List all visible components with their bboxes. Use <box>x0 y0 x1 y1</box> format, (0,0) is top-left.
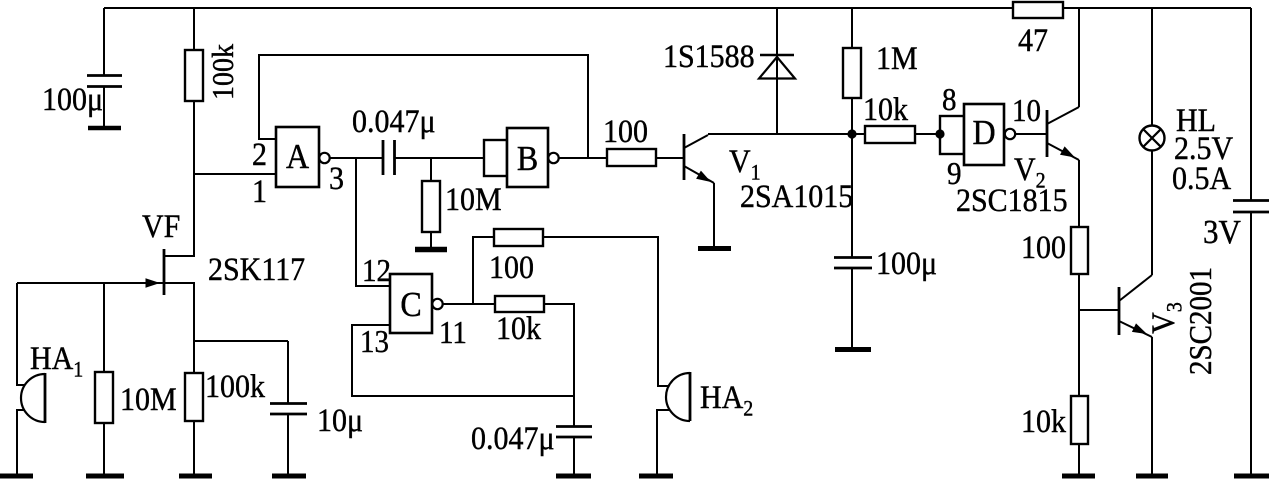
svg-text:3: 3 <box>329 160 344 196</box>
svg-text:D: D <box>972 114 995 153</box>
svg-text:100: 100 <box>1021 229 1066 265</box>
svg-text:100μ: 100μ <box>876 245 937 281</box>
svg-text:2: 2 <box>252 136 267 172</box>
svg-text:10k: 10k <box>863 91 908 127</box>
svg-text:C: C <box>400 286 421 325</box>
svg-text:100: 100 <box>603 113 648 149</box>
svg-text:2SA1015: 2SA1015 <box>740 178 853 214</box>
svg-text:10: 10 <box>1012 93 1041 128</box>
svg-text:10μ: 10μ <box>317 402 363 438</box>
svg-text:HA1: HA1 <box>30 340 83 382</box>
svg-text:8: 8 <box>942 82 957 117</box>
svg-text:13: 13 <box>360 324 389 359</box>
svg-text:0.5A: 0.5A <box>1172 160 1231 196</box>
svg-text:10M: 10M <box>120 381 177 417</box>
svg-text:100k: 100k <box>207 44 240 100</box>
svg-text:0.047μ: 0.047μ <box>352 103 436 139</box>
svg-text:HA2: HA2 <box>700 379 753 421</box>
svg-text:2SC2001: 2SC2001 <box>1183 267 1218 375</box>
svg-text:VF: VF <box>142 208 180 244</box>
svg-text:11: 11 <box>439 315 467 350</box>
svg-text:100μ: 100μ <box>42 81 103 117</box>
svg-text:1S1588: 1S1588 <box>663 38 755 74</box>
svg-text:1M: 1M <box>876 40 918 76</box>
svg-text:100k: 100k <box>205 368 265 404</box>
svg-text:1: 1 <box>252 173 267 209</box>
svg-text:3V: 3V <box>1203 214 1241 252</box>
svg-text:0.047μ: 0.047μ <box>471 420 555 456</box>
svg-text:2SC1815: 2SC1815 <box>956 182 1068 218</box>
svg-text:2SK117: 2SK117 <box>208 251 305 287</box>
svg-text:B: B <box>517 140 538 179</box>
svg-text:100: 100 <box>489 249 534 285</box>
svg-text:12: 12 <box>362 253 391 288</box>
svg-text:47: 47 <box>1018 22 1048 58</box>
svg-text:V3: V3 <box>1145 302 1187 334</box>
svg-text:A: A <box>286 138 309 177</box>
svg-text:10M: 10M <box>445 181 502 217</box>
svg-text:10k: 10k <box>1021 403 1066 439</box>
svg-text:10k: 10k <box>496 310 541 346</box>
